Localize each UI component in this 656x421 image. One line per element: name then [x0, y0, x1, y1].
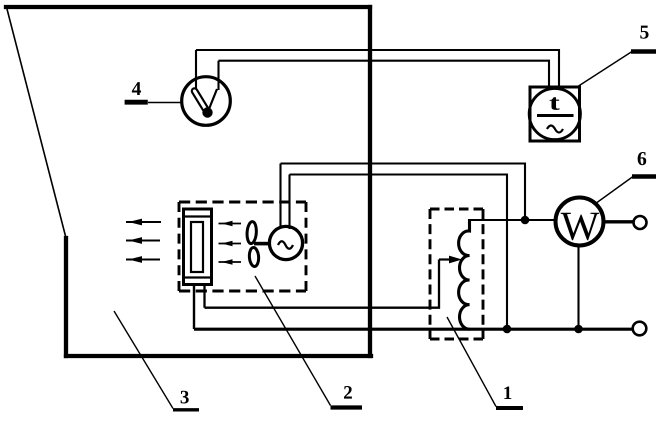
wire: run to bottom bus junction [290, 175, 508, 330]
chamber 3 slanted left wall [7, 9, 66, 238]
label 2 leader [255, 276, 331, 406]
wire: thermometer left top wire up [195, 50, 197, 90]
air arrows inside (3 small left-pointing) [219, 224, 242, 263]
wire: bottom bus [194, 328, 633, 331]
junction on bottom bus under wattmeter [574, 325, 583, 334]
heater outer body [184, 209, 212, 285]
autotransformer tap arrow shaft [439, 258, 453, 260]
thermometer 4 stem icon [195, 89, 218, 118]
wire: heater right lead down [203, 285, 205, 308]
wire: run from thermometer to transducer (inner) [219, 61, 550, 87]
transducer 5 circle [529, 88, 580, 139]
heater top cap line [184, 215, 212, 217]
wattmeter 6 letter W [561, 213, 600, 240]
transducer 5 sine symbol [547, 126, 563, 133]
autotransformer tap arrowhead [449, 256, 462, 264]
dashed enclosure of fan-heater unit 2 [179, 202, 306, 291]
fan motor circle [269, 226, 302, 259]
heater bottom cap line [184, 276, 212, 278]
autotransformer coil winding [459, 219, 470, 329]
wire: wattmeter right to terminal [604, 220, 633, 223]
air arrows outside (3 left-pointing) [126, 222, 161, 260]
wattmeter 6 circle [556, 198, 604, 246]
heater inner rect [191, 222, 203, 272]
label 2 digit [344, 386, 352, 399]
wire: heater left lead down [193, 285, 195, 329]
fan blade bottom ellipse [249, 247, 260, 267]
wire: run from thermometer to transducer (outer) [196, 50, 559, 87]
wire: wattmeter bottom down to bus [577, 246, 579, 330]
transducer 5 midline [537, 114, 574, 117]
label 4 leader [148, 102, 182, 104]
label 3 bar [173, 408, 199, 411]
label 2 bar [331, 405, 363, 409]
label 6 digit [638, 152, 647, 165]
label 6 bar [632, 174, 656, 178]
terminal lower right [633, 322, 647, 336]
junction at coil-top wire and motor feed [521, 216, 530, 225]
label 3 digit [181, 391, 189, 404]
label 5 digit [640, 26, 648, 39]
label 1 digit [504, 386, 511, 399]
label 4 digit [132, 82, 141, 95]
label 5 leader [577, 52, 632, 88]
label 1 bar [496, 406, 523, 410]
wire: motor right wire up [288, 175, 290, 230]
label 3 leader [114, 311, 173, 409]
label 5 bar [631, 49, 656, 53]
wire: heater lead to autotransformer tap [205, 260, 440, 308]
label 4 bar [125, 100, 148, 105]
junction on bottom bus x507 [503, 325, 512, 334]
chamber 3 outline (thick walls) [6, 7, 371, 356]
fan shaft [254, 242, 270, 246]
fan blade top ellipse [246, 221, 257, 244]
terminal upper right [634, 216, 647, 229]
wire: thermometer right top wire up [217, 61, 219, 90]
transducer 5 square [530, 87, 580, 141]
label 1 leader [447, 317, 496, 407]
dashed enclosure of autotransformer 1 [430, 209, 483, 339]
wire: motor left wire up [279, 164, 281, 229]
wire: run to autotransformer top junction [281, 164, 526, 221]
transducer 5 letter t [550, 97, 560, 110]
label 6 leader [597, 177, 633, 203]
fan motor sine symbol [278, 241, 293, 249]
thermometer 4 circle [182, 77, 231, 126]
wire: coil top to wattmeter [470, 219, 557, 221]
